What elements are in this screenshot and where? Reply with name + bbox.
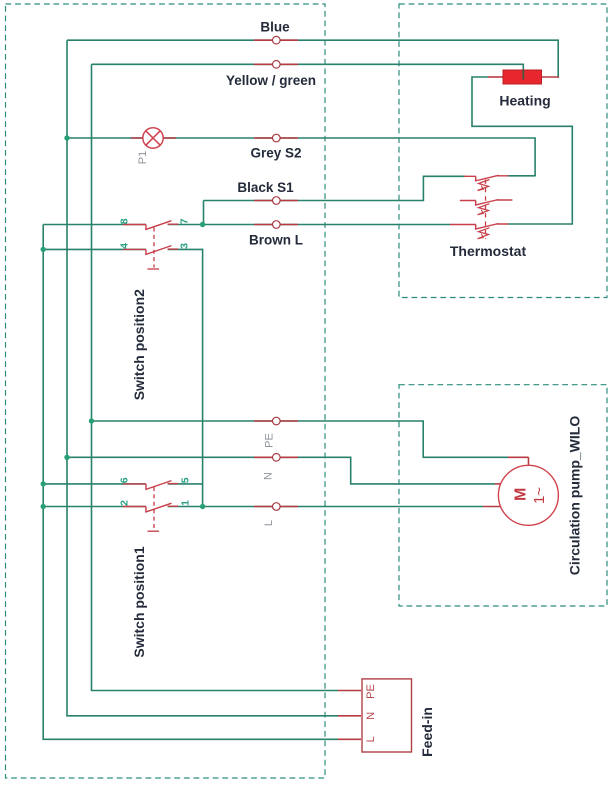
wire Brown L row right of contact to thermostat contact 3 [168, 224, 451, 226]
svg-text:L: L [365, 736, 377, 742]
wire red lead motor L [483, 506, 502, 508]
svg-text:Switch position2: Switch position2 [131, 289, 147, 400]
terminal PE [273, 417, 281, 425]
svg-text:5: 5 [180, 477, 192, 483]
wire thermostat contact1 right to grey drop [508, 175, 535, 178]
wire red lead motor N [495, 483, 502, 485]
terminal Yellow/green [273, 61, 281, 69]
junction pin 2 / L column [41, 504, 46, 509]
svg-text:1: 1 [180, 500, 192, 506]
svg-text:3: 3 [179, 243, 191, 249]
svg-text:Heating: Heating [499, 93, 550, 109]
wire red lead feed-in N [338, 715, 361, 717]
wire red lead at terminal L [254, 506, 298, 508]
switch position1 linkage [148, 487, 160, 531]
wire PE net vertical (yellow/green to feed-in PE) [92, 64, 339, 690]
wire Black S1 drop to pin 7 junction [203, 201, 205, 225]
svg-text:N: N [263, 472, 275, 480]
junction on PE row [89, 418, 94, 423]
wire L row to motor [168, 506, 483, 508]
wire red lead feed-in PE [338, 690, 361, 692]
terminal L [273, 503, 281, 511]
dashed enclosure: circulation pump unit [399, 385, 607, 606]
wire red lead at terminal Blue [254, 39, 298, 41]
wire Yellow/green row into heating top [92, 64, 524, 70]
svg-text:Circulation pump_WILO: Circulation pump_WILO [567, 416, 583, 576]
wire pin 3 lead down to switch position1 [168, 249, 203, 506]
dashed enclosure: switch/terminal panel [6, 4, 326, 778]
svg-text:2: 2 [118, 500, 130, 506]
wire N net vertical (blue column to feed-in N) [67, 40, 338, 716]
terminal Blue [273, 36, 281, 44]
svg-text:7: 7 [179, 218, 191, 224]
wire red lead at terminal PE [254, 420, 298, 422]
heating element [503, 70, 542, 84]
switch position2 contact 8-7 [123, 221, 178, 230]
svg-text:1~: 1~ [531, 487, 548, 504]
wire pin 4 lead [43, 248, 146, 250]
junction on N row [64, 455, 69, 460]
switch position2 contact 4-3 [123, 246, 178, 255]
svg-text:4: 4 [118, 243, 130, 249]
svg-text:N: N [365, 712, 377, 720]
wire heating left lead loop to thermostat contact 3 [472, 77, 572, 224]
wire red lead at terminal N [254, 456, 298, 458]
wire PE row routed to motor top [92, 421, 509, 457]
svg-text:Switch position1: Switch position1 [131, 546, 147, 657]
svg-text:PE: PE [365, 684, 377, 699]
svg-text:Grey S2: Grey S2 [250, 146, 301, 161]
junction pin 4 / L column [41, 247, 46, 252]
feed-in terminal block [362, 679, 412, 752]
wire red lead at terminal Yellow/green [254, 63, 298, 65]
terminal Black S1 [273, 197, 281, 205]
svg-text:Blue: Blue [260, 20, 290, 35]
wire red lead motor PE [508, 457, 529, 465]
wire red lead heating right [542, 76, 559, 78]
svg-text:L: L [263, 520, 275, 526]
terminal Brown L [273, 221, 281, 229]
svg-text:M: M [513, 488, 530, 501]
wire red lead heating left [488, 76, 503, 78]
lamp P1 [143, 128, 163, 148]
wire Blue row to heating right lead [67, 40, 558, 78]
dashed enclosure: heating / thermostat unit [399, 4, 607, 298]
junction pin 1 / L row [200, 504, 205, 509]
wire switch1 pin 5 lead to vertical [168, 483, 203, 485]
svg-text:PE: PE [264, 433, 276, 448]
svg-text:P1: P1 [137, 151, 149, 164]
wire switch1 contact 2 lead [43, 506, 146, 508]
thermostat contact 3 [450, 224, 509, 239]
svg-text:Yellow / green: Yellow / green [226, 73, 316, 88]
switch position2 linkage [148, 228, 160, 270]
wire red lead at terminal Black [254, 200, 298, 202]
wire switch1 contact 6 lead [43, 483, 146, 485]
junction pin 6 / L column [41, 481, 46, 486]
svg-text:Thermostat: Thermostat [450, 243, 527, 259]
terminal N [273, 454, 281, 462]
motor M1 circulation pump [498, 465, 558, 525]
wire Grey S2 row down to thermostat contact 1 [67, 138, 535, 176]
switch position1 contact 2-1 [123, 503, 178, 512]
svg-text:8: 8 [118, 218, 130, 224]
thermostat contact 1 [464, 175, 509, 190]
wire Brown L row left of contact 8-7 [43, 224, 146, 226]
wire red lead feed-in L [338, 738, 361, 740]
thermostat contact 2 [460, 200, 513, 215]
svg-text:Brown L: Brown L [249, 233, 303, 248]
thermostat linkage [485, 180, 487, 240]
junction on grey row / N column [64, 135, 69, 140]
wire Black S1 row up into thermostat box [204, 176, 466, 200]
wire red lead at terminal Brown [254, 224, 298, 226]
wire L net vertical (pins 8,4,6,2 common to feed-in L) [43, 225, 338, 740]
wire red lead at terminal Grey [254, 137, 298, 139]
svg-text:Feed-in: Feed-in [419, 707, 435, 757]
svg-text:Black S1: Black S1 [237, 180, 294, 195]
terminal Grey S2 [273, 134, 281, 142]
svg-text:6: 6 [118, 477, 130, 483]
junction pin 7 / Brown L [200, 222, 205, 227]
wire N row routed to motor left [67, 457, 495, 484]
wire red lead lamp P1 [131, 137, 176, 139]
switch position1 contact 6-5 [123, 481, 178, 490]
